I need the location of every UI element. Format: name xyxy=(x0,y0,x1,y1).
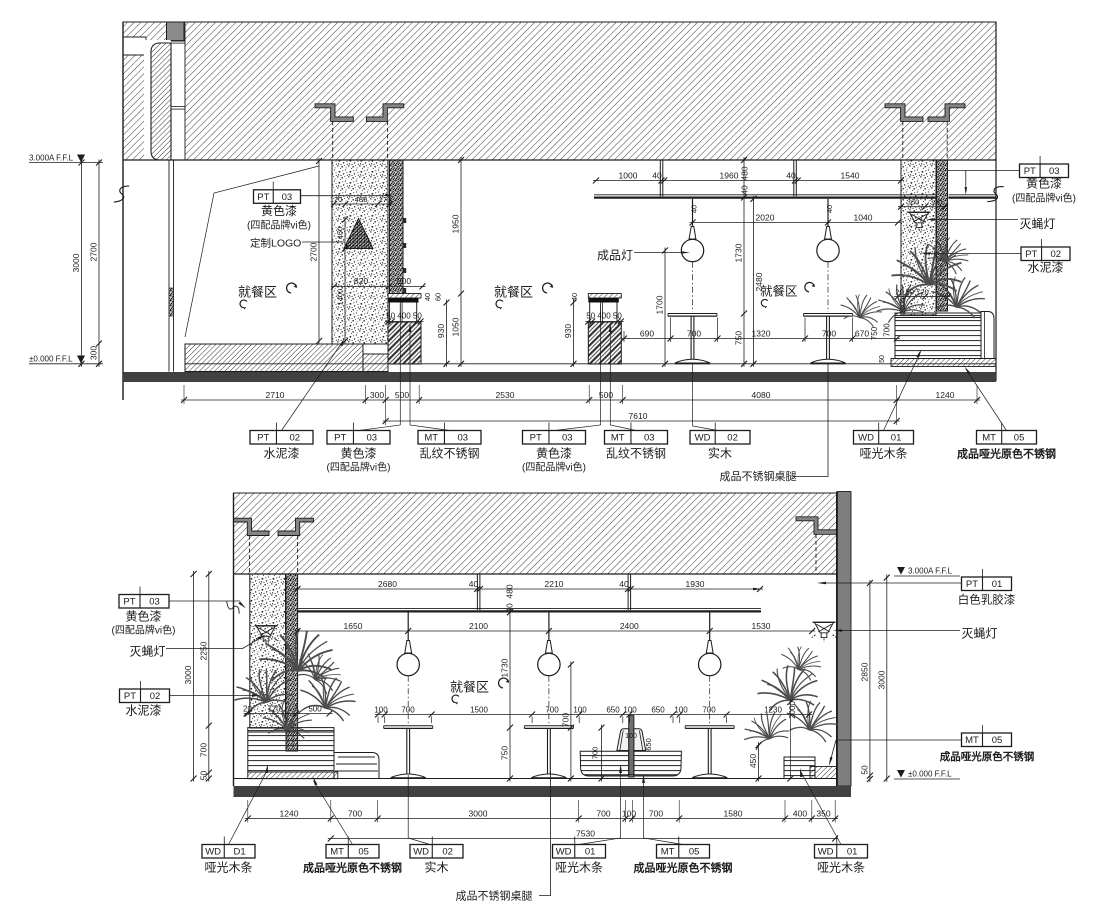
svg-text:700: 700 xyxy=(545,705,559,714)
svg-text:2400: 2400 xyxy=(620,621,639,631)
svg-text:05: 05 xyxy=(689,847,700,858)
svg-text:MT: MT xyxy=(661,847,675,858)
svg-text:(四配品牌vi色): (四配品牌vi色) xyxy=(247,219,311,232)
svg-text:02: 02 xyxy=(727,433,738,444)
svg-text:哑光木条: 哑光木条 xyxy=(555,861,603,875)
svg-text:400: 400 xyxy=(793,808,807,818)
svg-text:(四配品牌vi色): (四配品牌vi色) xyxy=(112,624,176,637)
svg-text:MT: MT xyxy=(330,847,344,858)
svg-text:40: 40 xyxy=(505,603,515,613)
svg-text:40: 40 xyxy=(825,205,834,213)
svg-text:成品哑光原色不锈钢: 成品哑光原色不锈钢 xyxy=(303,861,402,875)
svg-text:PT: PT xyxy=(966,579,978,590)
svg-text:(四配品牌vi色): (四配品牌vi色) xyxy=(1012,192,1076,205)
svg-text:±0.000 F.F.L: ±0.000 F.F.L xyxy=(908,770,952,779)
svg-text:1240: 1240 xyxy=(280,808,299,818)
svg-text:50: 50 xyxy=(859,765,869,775)
svg-text:成品灯: 成品灯 xyxy=(597,249,633,263)
svg-text:03: 03 xyxy=(457,433,468,444)
svg-text:300: 300 xyxy=(930,198,943,207)
svg-text:PT: PT xyxy=(1025,249,1037,260)
svg-text:01: 01 xyxy=(992,579,1003,590)
svg-text:PT: PT xyxy=(1024,166,1036,177)
svg-text:实木: 实木 xyxy=(424,860,448,875)
svg-text:500: 500 xyxy=(397,276,411,286)
svg-text:灭蝇灯: 灭蝇灯 xyxy=(130,645,166,659)
svg-text:WD: WD xyxy=(695,433,711,444)
svg-text:MT: MT xyxy=(965,735,979,746)
svg-text:50 400 50: 50 400 50 xyxy=(586,312,622,321)
svg-text:700: 700 xyxy=(198,743,208,757)
svg-text:650: 650 xyxy=(606,705,620,714)
svg-text:1950: 1950 xyxy=(451,214,461,233)
svg-text:01: 01 xyxy=(891,433,902,444)
svg-text:03: 03 xyxy=(149,597,160,608)
svg-text:乱纹不锈钢: 乱纹不锈钢 xyxy=(419,447,479,461)
svg-text:100: 100 xyxy=(374,705,388,714)
svg-text:100: 100 xyxy=(625,733,637,740)
svg-text:03: 03 xyxy=(1049,166,1060,177)
svg-text:03: 03 xyxy=(562,433,573,444)
svg-text:乱纹不锈钢: 乱纹不锈钢 xyxy=(606,447,666,461)
svg-text:4080: 4080 xyxy=(752,390,771,400)
svg-text:WD: WD xyxy=(818,847,834,858)
svg-text:700: 700 xyxy=(649,808,663,818)
svg-text:450: 450 xyxy=(748,754,758,768)
svg-text:成品哑光原色不锈钢: 成品哑光原色不锈钢 xyxy=(634,861,733,875)
svg-text:3.000A F.F.L: 3.000A F.F.L xyxy=(29,154,74,163)
svg-text:670: 670 xyxy=(855,328,869,338)
svg-text:40: 40 xyxy=(570,293,579,301)
svg-text:02: 02 xyxy=(150,691,161,702)
svg-text:1320: 1320 xyxy=(752,328,771,338)
svg-text:1050: 1050 xyxy=(451,317,461,336)
svg-text:哑光木条: 哑光木条 xyxy=(859,447,907,461)
svg-text:1580: 1580 xyxy=(724,808,743,818)
svg-text:就餐区: 就餐区 xyxy=(494,285,533,300)
svg-text:480: 480 xyxy=(740,166,750,180)
svg-text:700: 700 xyxy=(596,808,610,818)
svg-text:黄色漆: 黄色漆 xyxy=(1026,177,1062,191)
svg-text:500: 500 xyxy=(395,390,409,400)
svg-text:100: 100 xyxy=(573,705,587,714)
svg-text:D1: D1 xyxy=(234,847,246,858)
svg-text:930: 930 xyxy=(436,324,446,338)
svg-text:05: 05 xyxy=(1014,433,1025,444)
svg-text:100: 100 xyxy=(622,808,636,818)
svg-text:700: 700 xyxy=(822,328,836,338)
svg-text:2850: 2850 xyxy=(859,662,869,681)
svg-text:700: 700 xyxy=(401,705,415,714)
svg-text:02: 02 xyxy=(289,433,300,444)
svg-text:WD: WD xyxy=(205,847,221,858)
svg-text:300: 300 xyxy=(89,346,99,360)
svg-text:500: 500 xyxy=(599,390,613,400)
svg-text:1040: 1040 xyxy=(854,212,873,222)
svg-text:700: 700 xyxy=(687,328,701,338)
svg-text:485: 485 xyxy=(355,195,368,204)
svg-text:650: 650 xyxy=(644,738,653,751)
svg-text:PT: PT xyxy=(530,433,542,444)
svg-text:成品哑光原色不锈钢: 成品哑光原色不锈钢 xyxy=(940,750,1035,763)
svg-text:3000: 3000 xyxy=(71,253,81,272)
svg-text:1960: 1960 xyxy=(720,170,739,180)
svg-text:750: 750 xyxy=(500,746,510,760)
svg-text:1650: 1650 xyxy=(344,621,363,631)
svg-text:水泥漆: 水泥漆 xyxy=(1027,261,1063,275)
svg-text:就餐区: 就餐区 xyxy=(450,680,489,695)
svg-text:WD: WD xyxy=(858,433,874,444)
svg-text:2680: 2680 xyxy=(378,579,397,589)
svg-text:1240: 1240 xyxy=(936,390,955,400)
svg-text:40: 40 xyxy=(690,205,699,213)
svg-text:300: 300 xyxy=(370,390,384,400)
svg-text:成品不锈钢桌腿: 成品不锈钢桌腿 xyxy=(720,470,797,483)
svg-text:白色乳胶漆: 白色乳胶漆 xyxy=(958,593,1016,607)
svg-text:2210: 2210 xyxy=(545,579,564,589)
svg-text:7610: 7610 xyxy=(629,411,648,421)
svg-text:2700: 2700 xyxy=(309,242,319,261)
svg-text:01: 01 xyxy=(847,847,858,858)
svg-text:PT: PT xyxy=(124,691,136,702)
svg-text:05: 05 xyxy=(992,735,1003,746)
svg-text:02: 02 xyxy=(1051,249,1062,260)
svg-text:450: 450 xyxy=(336,227,345,240)
svg-text:03: 03 xyxy=(644,433,655,444)
svg-text:40: 40 xyxy=(619,579,629,589)
svg-text:PT: PT xyxy=(123,597,135,608)
svg-text:MT: MT xyxy=(982,433,996,444)
svg-text:定制LOGO: 定制LOGO xyxy=(250,237,301,250)
svg-text:750: 750 xyxy=(734,331,744,345)
svg-text:100: 100 xyxy=(623,705,637,714)
svg-text:1530: 1530 xyxy=(752,621,771,631)
svg-text:实木: 实木 xyxy=(708,446,732,461)
svg-text:40: 40 xyxy=(652,170,662,180)
svg-text:哑光木条: 哑光木条 xyxy=(817,861,865,875)
svg-text:±0.000 F.F.L: ±0.000 F.F.L xyxy=(29,355,73,364)
svg-text:就餐区: 就餐区 xyxy=(238,285,277,300)
svg-text:黄色漆: 黄色漆 xyxy=(340,447,376,461)
svg-text:灭蝇灯: 灭蝇灯 xyxy=(962,627,998,641)
svg-text:水泥漆: 水泥漆 xyxy=(263,447,299,461)
svg-text:01: 01 xyxy=(585,847,596,858)
svg-text:20 50 720: 20 50 720 xyxy=(895,288,928,297)
svg-text:PT: PT xyxy=(257,433,269,444)
svg-text:50 400 50: 50 400 50 xyxy=(386,312,422,321)
svg-text:2100: 2100 xyxy=(469,621,488,631)
svg-text:1730: 1730 xyxy=(734,243,744,262)
svg-text:(四配品牌vi色): (四配品牌vi色) xyxy=(327,461,391,474)
svg-text:2000: 2000 xyxy=(898,298,907,315)
svg-text:1540: 1540 xyxy=(841,170,860,180)
svg-text:水泥漆: 水泥漆 xyxy=(125,704,161,718)
svg-text:720: 720 xyxy=(267,704,281,713)
svg-text:690: 690 xyxy=(640,328,654,338)
svg-text:360: 360 xyxy=(907,198,920,207)
svg-text:700: 700 xyxy=(883,323,892,337)
svg-text:1000: 1000 xyxy=(619,170,638,180)
svg-text:MT: MT xyxy=(424,433,438,444)
svg-text:50: 50 xyxy=(879,355,886,363)
svg-text:05: 05 xyxy=(358,847,369,858)
svg-text:03: 03 xyxy=(366,433,377,444)
svg-text:480: 480 xyxy=(505,584,515,598)
svg-text:700: 700 xyxy=(591,747,600,760)
svg-text:1930: 1930 xyxy=(686,579,705,589)
svg-text:灭蝇灯: 灭蝇灯 xyxy=(1020,217,1056,231)
svg-text:40: 40 xyxy=(469,579,479,589)
svg-text:03: 03 xyxy=(282,192,293,203)
svg-text:700: 700 xyxy=(348,808,362,818)
svg-text:WD: WD xyxy=(556,847,572,858)
svg-text:2020: 2020 xyxy=(756,212,775,222)
svg-text:2530: 2530 xyxy=(496,390,515,400)
svg-text:930: 930 xyxy=(563,324,573,338)
svg-text:650: 650 xyxy=(651,705,665,714)
svg-text:黄色漆: 黄色漆 xyxy=(536,447,572,461)
svg-text:02: 02 xyxy=(442,847,453,858)
svg-text:1400: 1400 xyxy=(336,289,345,306)
svg-text:3.000A F.F.L: 3.000A F.F.L xyxy=(908,567,953,576)
svg-text:7530: 7530 xyxy=(576,828,595,838)
svg-text:黄色漆: 黄色漆 xyxy=(261,204,297,218)
svg-text:750: 750 xyxy=(870,326,879,340)
svg-text:2710: 2710 xyxy=(266,390,285,400)
svg-text:3000: 3000 xyxy=(876,670,886,689)
svg-text:MT: MT xyxy=(611,433,625,444)
svg-text:40: 40 xyxy=(740,185,750,195)
svg-text:黄色漆: 黄色漆 xyxy=(125,610,161,624)
svg-text:2700: 2700 xyxy=(89,242,99,261)
svg-text:1730: 1730 xyxy=(500,658,510,677)
svg-text:60: 60 xyxy=(434,293,443,301)
svg-text:PT: PT xyxy=(334,433,346,444)
svg-text:1230: 1230 xyxy=(764,705,782,714)
svg-text:2250: 2250 xyxy=(198,641,208,660)
svg-text:700: 700 xyxy=(702,705,716,714)
svg-text:PT: PT xyxy=(257,192,269,203)
svg-text:WD: WD xyxy=(413,847,429,858)
svg-text:(四配品牌vi色): (四配品牌vi色) xyxy=(522,461,586,474)
svg-text:就餐区: 就餐区 xyxy=(760,284,798,299)
svg-text:100: 100 xyxy=(674,705,688,714)
svg-text:3000: 3000 xyxy=(183,665,193,684)
svg-text:哑光木条: 哑光木条 xyxy=(204,861,252,875)
svg-text:40: 40 xyxy=(786,170,796,180)
svg-text:3000: 3000 xyxy=(469,808,488,818)
svg-text:820: 820 xyxy=(354,276,368,286)
svg-text:20: 20 xyxy=(243,704,252,713)
svg-text:成品哑光原色不锈钢: 成品哑光原色不锈钢 xyxy=(957,447,1056,461)
svg-text:1700: 1700 xyxy=(655,295,665,314)
svg-text:170: 170 xyxy=(330,195,343,204)
svg-text:50: 50 xyxy=(198,771,208,781)
svg-text:成品不锈钢桌腿: 成品不锈钢桌腿 xyxy=(456,890,533,903)
svg-text:1500: 1500 xyxy=(470,705,488,714)
svg-text:500: 500 xyxy=(308,704,322,713)
svg-text:40: 40 xyxy=(423,293,432,301)
